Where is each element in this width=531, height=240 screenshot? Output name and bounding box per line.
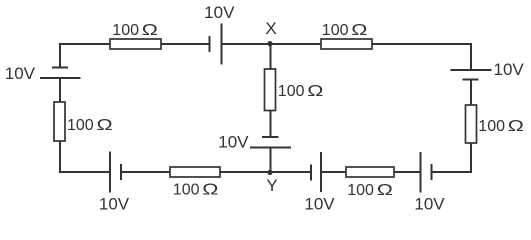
resistor R5 100ohm bottom-left [170, 167, 220, 177]
svg-text:Ω: Ω [377, 182, 393, 200]
battery BT top: long plate [221, 24, 223, 65]
svg-text:Ω: Ω [202, 181, 218, 199]
svg-text:100: 100 [112, 22, 139, 39]
battery B1 bottom-left: long plate [109, 152, 111, 193]
svg-text:Ω: Ω [307, 83, 323, 101]
wire middle R7 to battery BM [270, 111, 272, 138]
svg-text:Y: Y [266, 176, 277, 195]
battery BR right: short plate [463, 79, 479, 81]
svg-text:10V: 10V [5, 64, 36, 83]
resistor R2 100ohm top-right [321, 39, 372, 49]
resistor R1 100ohm top-left [110, 39, 161, 49]
resistor R7 100ohm middle vertical [265, 69, 276, 111]
svg-text:10V: 10V [494, 60, 525, 79]
wire bottom between B3 and R4 [394, 171, 421, 173]
wire top-left horizontal [59, 43, 110, 45]
battery B3 bottom-right: short plate [431, 164, 433, 180]
wire bottom between R4 and B2 [321, 171, 346, 173]
battery BL left: long plate [40, 77, 81, 79]
svg-text:10V: 10V [218, 133, 249, 152]
wire left lower vertical [59, 141, 61, 173]
battery B1 bottom-left: short plate [120, 164, 122, 180]
svg-text:10V: 10V [414, 195, 445, 214]
wire middle battery BM to node Y [270, 148, 272, 173]
wire right lower vertical [470, 143, 472, 173]
wire bottom between B2 and node Y [271, 171, 312, 173]
node X junction dot [267, 41, 272, 46]
resistor R4 100ohm bottom-right [346, 167, 394, 177]
battery BM middle: short plate [262, 136, 279, 138]
battery BM middle: long plate [250, 147, 291, 149]
wire bottom between R5 and B1 [121, 171, 170, 173]
svg-text:100: 100 [173, 182, 200, 199]
wire right upper vertical [470, 43, 472, 70]
svg-text:Ω: Ω [351, 22, 367, 40]
svg-text:10V: 10V [304, 195, 335, 214]
battery BL left: short plate [52, 67, 68, 69]
node Y junction dot [267, 170, 272, 175]
svg-text:100: 100 [67, 117, 94, 134]
svg-text:100: 100 [478, 118, 505, 135]
battery B2 bottom-middle: long plate [320, 152, 322, 192]
svg-text:Ω: Ω [97, 117, 113, 135]
wire left middle vertical [59, 78, 61, 102]
svg-text:Ω: Ω [508, 118, 524, 136]
svg-text:X: X [265, 19, 276, 38]
wire middle node X to R7 [270, 44, 272, 69]
svg-text:Ω: Ω [142, 22, 158, 40]
svg-text:100: 100 [347, 182, 374, 199]
battery BR right: long plate [451, 69, 492, 71]
wire top-right horizontal [372, 43, 471, 45]
wire bottom-left horizontal [59, 171, 110, 173]
svg-text:10V: 10V [99, 195, 130, 214]
wire top between node X and R2 [271, 43, 322, 45]
svg-text:100: 100 [322, 22, 349, 39]
wire right middle vertical [470, 80, 472, 106]
wire left upper vertical [59, 43, 61, 68]
wire bottom between node Y and R5 [220, 171, 271, 173]
wire bottom-right horizontal [432, 171, 472, 173]
resistor R6 100ohm left vertical [54, 102, 65, 141]
battery B2 bottom-middle: short plate [310, 165, 312, 181]
wire top between battery and node X [222, 43, 271, 45]
wire top between R1 and battery [161, 43, 210, 45]
svg-text:10V: 10V [204, 3, 235, 22]
resistor R3 100ohm right vertical [466, 105, 477, 143]
battery BT top: short plate [209, 36, 211, 52]
battery B3 bottom-right: long plate [420, 152, 422, 193]
svg-text:100: 100 [278, 83, 305, 100]
